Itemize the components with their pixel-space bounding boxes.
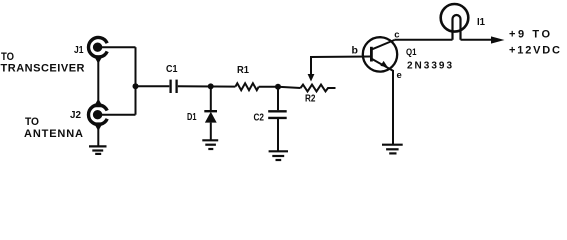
svg-text:R2: R2 [305, 94, 316, 105]
wire vertical bus [135, 47, 137, 115]
wire lamp to output [461, 39, 495, 41]
svg-text:J2: J2 [70, 110, 81, 121]
wire R1 to C2 junction [259, 86, 278, 88]
wire J2 center to vertical bus [98, 114, 136, 116]
label TO ANTENNA [24, 116, 83, 140]
svg-text:+9 TO: +9 TO [509, 29, 550, 41]
svg-text:b: b [352, 45, 358, 57]
wire C2 to ground [277, 119, 279, 151]
svg-text:TO: TO [25, 116, 39, 128]
output arrow [491, 36, 505, 43]
ground below Q1 emitter [382, 145, 403, 154]
svg-text:D1: D1 [187, 112, 197, 123]
svg-text:e: e [397, 70, 402, 81]
wire emitter to ground [392, 70, 394, 145]
wire collector to lamp [394, 39, 452, 41]
svg-text:ANTENNA: ANTENNA [24, 128, 83, 140]
connector J1 [88, 37, 107, 63]
R2 wiper arrow [308, 57, 371, 82]
node bus junction [133, 83, 139, 89]
svg-text:R1: R1 [237, 65, 249, 76]
svg-text:C1: C1 [166, 64, 178, 75]
svg-text:2N3393: 2N3393 [407, 61, 452, 72]
transistor Q1 [363, 37, 397, 71]
lamp I1 [441, 4, 469, 40]
ground below J2 [89, 146, 107, 154]
capacitor C1 [171, 80, 177, 93]
svg-text:C2: C2 [254, 113, 265, 124]
wire D1 junction down [210, 86, 212, 110]
potentiometer R2 [301, 85, 336, 92]
label TO TRANSCEIVER [1, 51, 85, 75]
wire bus to C1 [136, 85, 170, 87]
ground below C2 [269, 151, 288, 160]
capacitor C2 [268, 111, 287, 118]
svg-text:+12VDC: +12VDC [509, 45, 560, 57]
node C2 junction [275, 84, 281, 90]
resistor R1 [235, 83, 258, 90]
ground below D1 [202, 140, 218, 149]
node D1 junction [208, 83, 214, 89]
wire C2 junction down [277, 87, 279, 110]
wire J1 center to vertical bus [98, 46, 136, 48]
svg-text:J1: J1 [74, 45, 84, 56]
wire D1 to ground [210, 123, 212, 141]
wire C1 to R1 [178, 85, 236, 87]
svg-text:Q1: Q1 [406, 47, 417, 58]
svg-text:TRANSCEIVER: TRANSCEIVER [1, 63, 85, 75]
wire C2 junction to R2 [278, 87, 301, 88]
svg-text:TO: TO [1, 51, 14, 63]
svg-text:I1: I1 [477, 17, 485, 28]
wire J1 shell to J2 shell [97, 60, 99, 105]
connector J2 [88, 99, 107, 131]
diode D1 [204, 111, 217, 122]
wire J2 shell to ground [97, 129, 99, 146]
